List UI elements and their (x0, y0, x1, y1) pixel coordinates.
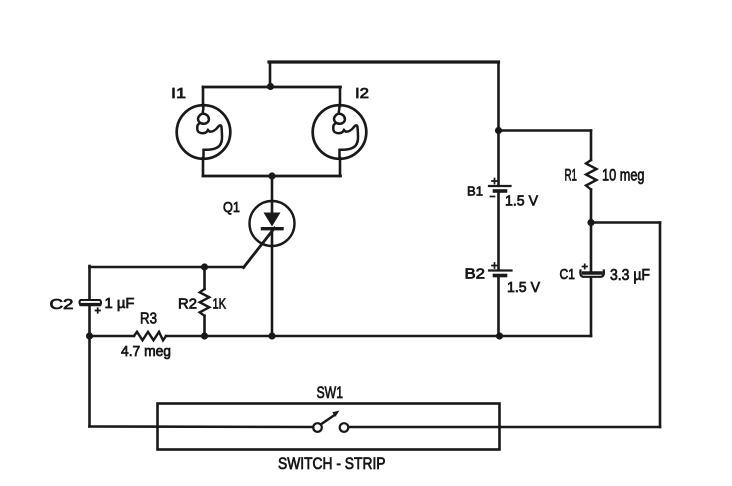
capacitor C2 (80, 300, 101, 313)
switch box SW1 (158, 404, 500, 450)
wire gate bus (90, 266, 245, 269)
wire left vertical upper (88, 266, 91, 300)
lamp I2 (313, 105, 367, 159)
battery B2 (489, 263, 512, 276)
battery B1 (489, 179, 511, 197)
wire junction to R1 column (499, 129, 592, 132)
wire top-rail drop to lamp bus (269, 62, 272, 87)
svg-text:C1: C1 (560, 267, 576, 283)
resistor R2 (200, 267, 210, 336)
resistor R3 (134, 332, 166, 341)
svg-text:Q1: Q1 (223, 199, 240, 216)
node Q1 cathode junction (268, 332, 275, 339)
wire I2 bottom lead (339, 158, 342, 176)
svg-text:10 meg: 10 meg (602, 166, 645, 185)
svg-text:I1: I1 (171, 85, 186, 102)
transistor Q1 (244, 201, 295, 268)
svg-text:R1: R1 (565, 165, 578, 184)
wire bottom rail left (90, 425, 314, 428)
wire R1 to C1 (590, 190, 593, 272)
node R1 C1 junction (587, 219, 594, 226)
capacitor C1 (580, 264, 604, 277)
svg-text:SWITCH - STRIP: SWITCH - STRIP (278, 455, 386, 473)
wire I2 top lead (339, 87, 342, 106)
svg-text:3.3 µF: 3.3 µF (610, 267, 650, 284)
svg-text:SW1: SW1 (317, 383, 344, 402)
svg-text:C2: C2 (50, 296, 74, 313)
wire lamp bottom bus (203, 175, 341, 178)
wire battery mid (497, 193, 500, 270)
wire C1 bottom (590, 279, 593, 337)
svg-text:1 µF: 1 µF (105, 295, 135, 312)
wire battery column top (497, 62, 500, 185)
node R2 top junction (201, 263, 208, 270)
svg-text:R3: R3 (140, 311, 157, 328)
wire I1 bottom lead (202, 158, 205, 176)
node lamp top junction (267, 83, 274, 90)
wire battery column bottom (497, 277, 500, 336)
node battery top junction (495, 127, 502, 134)
svg-text:1.5 V: 1.5 V (507, 279, 540, 296)
svg-text:B2: B2 (465, 266, 486, 283)
wire right column (659, 223, 662, 428)
wire I1 top lead (202, 87, 205, 106)
node left mid-rail junction (86, 332, 93, 339)
wire lamp top bus (203, 86, 341, 89)
wire bottom rail right (349, 426, 661, 429)
wire junction to right column (591, 221, 660, 224)
wire R1 column top (590, 131, 593, 161)
svg-text:1K: 1K (213, 296, 227, 313)
svg-text:1.5 V: 1.5 V (505, 193, 538, 210)
wire top rail (269, 60, 499, 63)
svg-text:R2: R2 (178, 296, 197, 313)
switch SW1 contacts (313, 411, 348, 432)
node lamp bottom junction (268, 172, 275, 179)
node battery bottom junction (496, 332, 503, 339)
wire Q1 cathode (271, 230, 274, 336)
svg-text:4.7 meg: 4.7 meg (121, 344, 171, 360)
node R2 bottom junction (201, 332, 208, 339)
resistor R1 (586, 160, 597, 190)
wire left vertical lower (88, 307, 91, 427)
svg-text:I2: I2 (355, 85, 369, 102)
wire mid rail left segment (90, 335, 135, 338)
wire Q1 anode (271, 176, 274, 213)
wire mid rail right segment (166, 335, 591, 338)
svg-text:B1: B1 (467, 184, 483, 199)
lamp I1 (177, 105, 231, 159)
